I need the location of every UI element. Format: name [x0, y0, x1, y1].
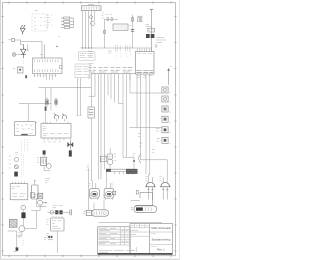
motor M1 [90, 188, 100, 199]
connector X4 [15, 122, 38, 136]
junction [82, 47, 83, 48]
wire [104, 74, 106, 170]
wire [15, 40, 24, 44]
wire [89, 74, 95, 97]
terminal strip TB1 [106, 169, 136, 175]
coil L1 [107, 159, 113, 165]
label [104, 155, 106, 157]
wire [45, 88, 47, 124]
label [88, 78, 90, 80]
indicator H1 [162, 87, 171, 93]
resistor R2 [61, 20, 74, 22]
wire [148, 74, 149, 183]
lamp E4 [15, 157, 19, 161]
wire [92, 181, 95, 189]
wire [103, 200, 105, 210]
transformer TR1 [9, 219, 17, 227]
wire [114, 74, 116, 103]
diode D5 [67, 139, 73, 149]
resistor R5 [132, 17, 134, 21]
coil L4 [19, 226, 25, 232]
capacitor C9 [55, 210, 58, 214]
IC U1 bottom pins [35, 74, 56, 80]
connector X5 [41, 122, 71, 142]
terminal X9 [48, 236, 53, 240]
varistor RV2 [111, 18, 112, 21]
wire [25, 211, 37, 229]
resistor R7 [104, 30, 106, 33]
capacitor C11 [70, 209, 72, 215]
wire bus [81, 47, 152, 49]
wire [109, 148, 111, 154]
label [156, 128, 160, 141]
wire [91, 74, 93, 107]
relay K6 [41, 155, 47, 166]
ground [155, 45, 158, 47]
wire label group [99, 67, 108, 72]
terminal cap [150, 8, 153, 10]
wire [109, 165, 111, 169]
cable marker [139, 154, 141, 163]
wire [119, 74, 124, 158]
capacitor C4 [151, 34, 155, 38]
net label column [22, 153, 24, 178]
label [89, 183, 91, 185]
wire [37, 199, 47, 207]
label [9, 156, 11, 168]
terminal block T2 [75, 64, 90, 78]
connector X3 [13, 67, 23, 73]
wire [27, 44, 29, 50]
fuse F5 [55, 97, 58, 107]
label [46, 234, 49, 238]
connector J1 [82, 5, 102, 11]
fuse F3 [45, 107, 47, 111]
label [87, 166, 90, 170]
svg-text:Rev. 1: Rev. 1 [157, 248, 165, 252]
junction [133, 160, 135, 162]
ECU U5 [88, 107, 94, 118]
label [105, 14, 112, 16]
wire [57, 231, 59, 253]
wire [93, 203, 95, 210]
label [145, 177, 147, 181]
net label column [21, 140, 28, 152]
wire bus [91, 73, 136, 75]
connector J2 [136, 49, 155, 74]
svg-text:Standard wiring: Standard wiring [152, 237, 171, 241]
square S2 [112, 191, 115, 194]
svg-text:Table Schematic: Table Schematic [151, 226, 171, 230]
relay K8 [38, 193, 43, 199]
label [156, 38, 166, 43]
horn B2 [160, 182, 170, 199]
wire label group [89, 67, 96, 72]
label [44, 238, 46, 240]
shield box SH1 [126, 169, 138, 174]
relay K3 coil [91, 21, 95, 25]
net stub [88, 74, 90, 78]
motor M2 [104, 188, 114, 199]
terminal X8 [13, 247, 18, 251]
resistor R1 [61, 17, 74, 19]
capacitor C10 [59, 210, 62, 214]
wire [141, 74, 168, 160]
horn B1 [145, 182, 155, 199]
lamp E5 [14, 165, 18, 169]
IC U1 [33, 58, 63, 74]
label [137, 76, 153, 78]
label column [47, 15, 53, 28]
wire [73, 18, 75, 27]
net arrow N1 [168, 67, 172, 85]
wire [48, 211, 70, 213]
wire [44, 166, 50, 171]
indicator H3 [162, 106, 171, 112]
capacitor C7 [14, 172, 17, 177]
label [37, 158, 39, 163]
wire [98, 74, 100, 180]
IC U1 top pins [35, 60, 58, 63]
lamp E6 [21, 205, 26, 210]
indicator H5 [162, 127, 171, 133]
label [159, 177, 161, 181]
zener D2 [21, 44, 26, 58]
label [138, 134, 142, 147]
relay K9 [50, 216, 64, 231]
capacitor C3 [146, 34, 150, 38]
indicator H6 [162, 137, 171, 143]
wire [129, 74, 131, 81]
label [88, 196, 97, 198]
net label column [116, 52, 130, 58]
wire [104, 19, 118, 48]
diode D3 [89, 15, 93, 19]
wire [16, 54, 21, 56]
label [102, 13, 104, 18]
label [88, 51, 93, 56]
label [152, 150, 155, 153]
fuse F4 [46, 97, 49, 107]
wire [79, 78, 81, 116]
varistor RV1 [107, 18, 108, 21]
wire [87, 168, 89, 210]
terminal X10 [136, 190, 138, 194]
wire [130, 74, 162, 128]
wire [145, 74, 147, 174]
resistor R4 [61, 27, 74, 29]
wire bus [39, 87, 92, 89]
label [89, 63, 94, 65]
lamp E3 [62, 114, 67, 122]
connector X6 [10, 182, 28, 200]
relay K4 [108, 154, 113, 159]
label [108, 51, 112, 53]
label [45, 179, 50, 183]
label [132, 153, 135, 155]
wire [50, 88, 52, 111]
net stubs [116, 45, 130, 52]
label [18, 233, 21, 237]
label [114, 154, 117, 160]
wire [8, 231, 17, 250]
relay K1 [113, 24, 131, 30]
IC U1 bottom pin ticks [35, 69, 58, 72]
wire label group [123, 67, 133, 72]
coil L2 [46, 164, 51, 169]
wire [76, 78, 78, 116]
label [40, 54, 43, 56]
capacitor C5 [69, 148, 72, 156]
wire [132, 15, 134, 48]
connector J3 [83, 210, 91, 215]
label [52, 206, 63, 208]
indicator H4 [162, 116, 171, 122]
wire [21, 42, 43, 58]
lamp E1 [12, 53, 16, 57]
wire [22, 210, 24, 213]
wire label group [111, 67, 121, 72]
wire [44, 44, 46, 58]
wire arrow [43, 202, 48, 204]
wire [100, 74, 102, 180]
wire [19, 103, 51, 105]
wire [17, 232, 22, 236]
capacitor C8 [21, 212, 25, 218]
coil L3 [38, 200, 43, 205]
switch S1 [30, 193, 34, 198]
resistor R6 [137, 16, 142, 21]
wire [151, 177, 153, 183]
wire [130, 74, 162, 93]
title block [98, 224, 173, 255]
label [58, 36, 60, 38]
wire [123, 74, 134, 169]
label [103, 196, 112, 198]
wire [82, 11, 84, 48]
wire [27, 104, 29, 122]
wire [22, 218, 24, 226]
capacitor C2 [131, 30, 134, 32]
relay K2 [148, 28, 155, 32]
label b [36, 9, 38, 11]
wire [31, 205, 40, 210]
diode D1 [20, 25, 25, 34]
label [46, 220, 49, 224]
junction [85, 47, 86, 48]
wire [94, 11, 96, 21]
indicator H2 [162, 96, 171, 102]
wire [88, 11, 90, 48]
junction [88, 47, 89, 48]
ECU U7 [135, 193, 152, 206]
label [111, 184, 113, 186]
fuse F2 [131, 206, 157, 213]
terminal W1 [9, 38, 15, 41]
wire [107, 74, 109, 96]
wire [110, 74, 112, 100]
fuse F1 [92, 210, 109, 216]
label [145, 25, 151, 27]
resistor R3 [61, 23, 74, 25]
wire [91, 11, 93, 48]
wire [151, 10, 153, 52]
wire [166, 160, 168, 184]
lamp E7 [50, 210, 54, 214]
label [15, 153, 18, 155]
IC U1 notch [59, 65, 62, 68]
terminal block T1 [79, 52, 96, 60]
lamp E2 [54, 114, 59, 122]
wire [99, 222, 162, 224]
relay K7 [32, 180, 38, 199]
label [34, 74, 57, 76]
wire [91, 118, 94, 181]
net label column [22, 238, 24, 245]
wire [106, 172, 110, 189]
capacitor C6 [43, 150, 46, 154]
junction [56, 46, 57, 47]
contact box K10 [100, 156, 106, 162]
junction [91, 47, 92, 48]
IC U3 [32, 14, 47, 31]
net label column [22, 60, 24, 65]
wire [131, 199, 140, 201]
wire [85, 11, 87, 48]
wire [162, 177, 164, 183]
terminal X1 [25, 75, 27, 78]
